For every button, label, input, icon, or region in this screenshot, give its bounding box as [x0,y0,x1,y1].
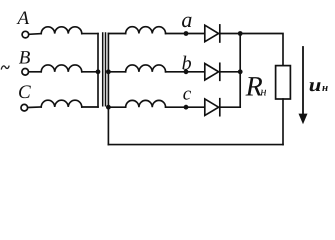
svg-text:н: н [260,84,266,98]
primary winding phase B [41,65,82,72]
svg-text:a: a [181,7,192,32]
terminal B [22,69,29,76]
svg-text:A: A [16,8,30,29]
wire secondary bus to winding c [108,106,125,108]
ac source tilde [1,66,9,69]
svg-text:b: b [182,53,192,75]
svg-text:B: B [19,48,31,69]
wire C terminal to winding [28,106,41,109]
junction cathode bus node a [238,31,243,36]
cathode bus wire [239,34,241,108]
node b junction dot [184,69,189,74]
wire winding B to primary bus [82,71,98,73]
node a junction dot [184,31,189,36]
wire diode c to cathode bus [220,106,240,108]
wire diode a to cathode bus [220,33,240,35]
primary winding phase C [41,100,82,107]
junction secondary bus phase c [106,105,111,110]
wire winding b to diode [166,71,205,73]
return rail wire [108,144,283,146]
wire secondary bus to winding a [108,33,125,35]
svg-text:н: н [322,82,328,94]
junction cathode bus node b [238,69,243,74]
terminal A [22,31,29,38]
secondary winding phase a [126,27,166,34]
diode VDc [205,99,220,116]
wire winding C to primary bus [82,106,98,108]
wire load bottom to return rail [282,99,284,145]
transformer core [103,33,106,106]
junction secondary bus phase b [106,69,111,74]
wire secondary bus to winding b [108,71,125,73]
wire A terminal to winding [29,33,41,36]
svg-text:c: c [183,84,192,105]
wire cathode bus to load top [240,34,283,66]
terminal C [21,104,28,111]
diode VDa [205,25,220,42]
junction primary bus phase B [96,69,101,74]
svg-text:u: u [309,75,322,96]
output voltage arrow un [299,47,308,124]
wire B terminal to winding [29,71,42,73]
primary winding phase A [41,27,82,34]
resistor Rn [276,66,291,99]
wire diode b to cathode bus [220,71,240,73]
secondary winding phase c [126,100,166,107]
node c junction dot [184,105,189,110]
diode VDb [205,63,220,80]
svg-text:C: C [18,82,31,103]
secondary winding phase b [126,65,166,72]
primary neutral bus wire [97,34,99,107]
wire winding c to diode [166,106,205,108]
secondary neutral bus wire [107,34,109,145]
wire winding A to primary bus [82,33,98,35]
wire winding a to diode [166,33,205,35]
